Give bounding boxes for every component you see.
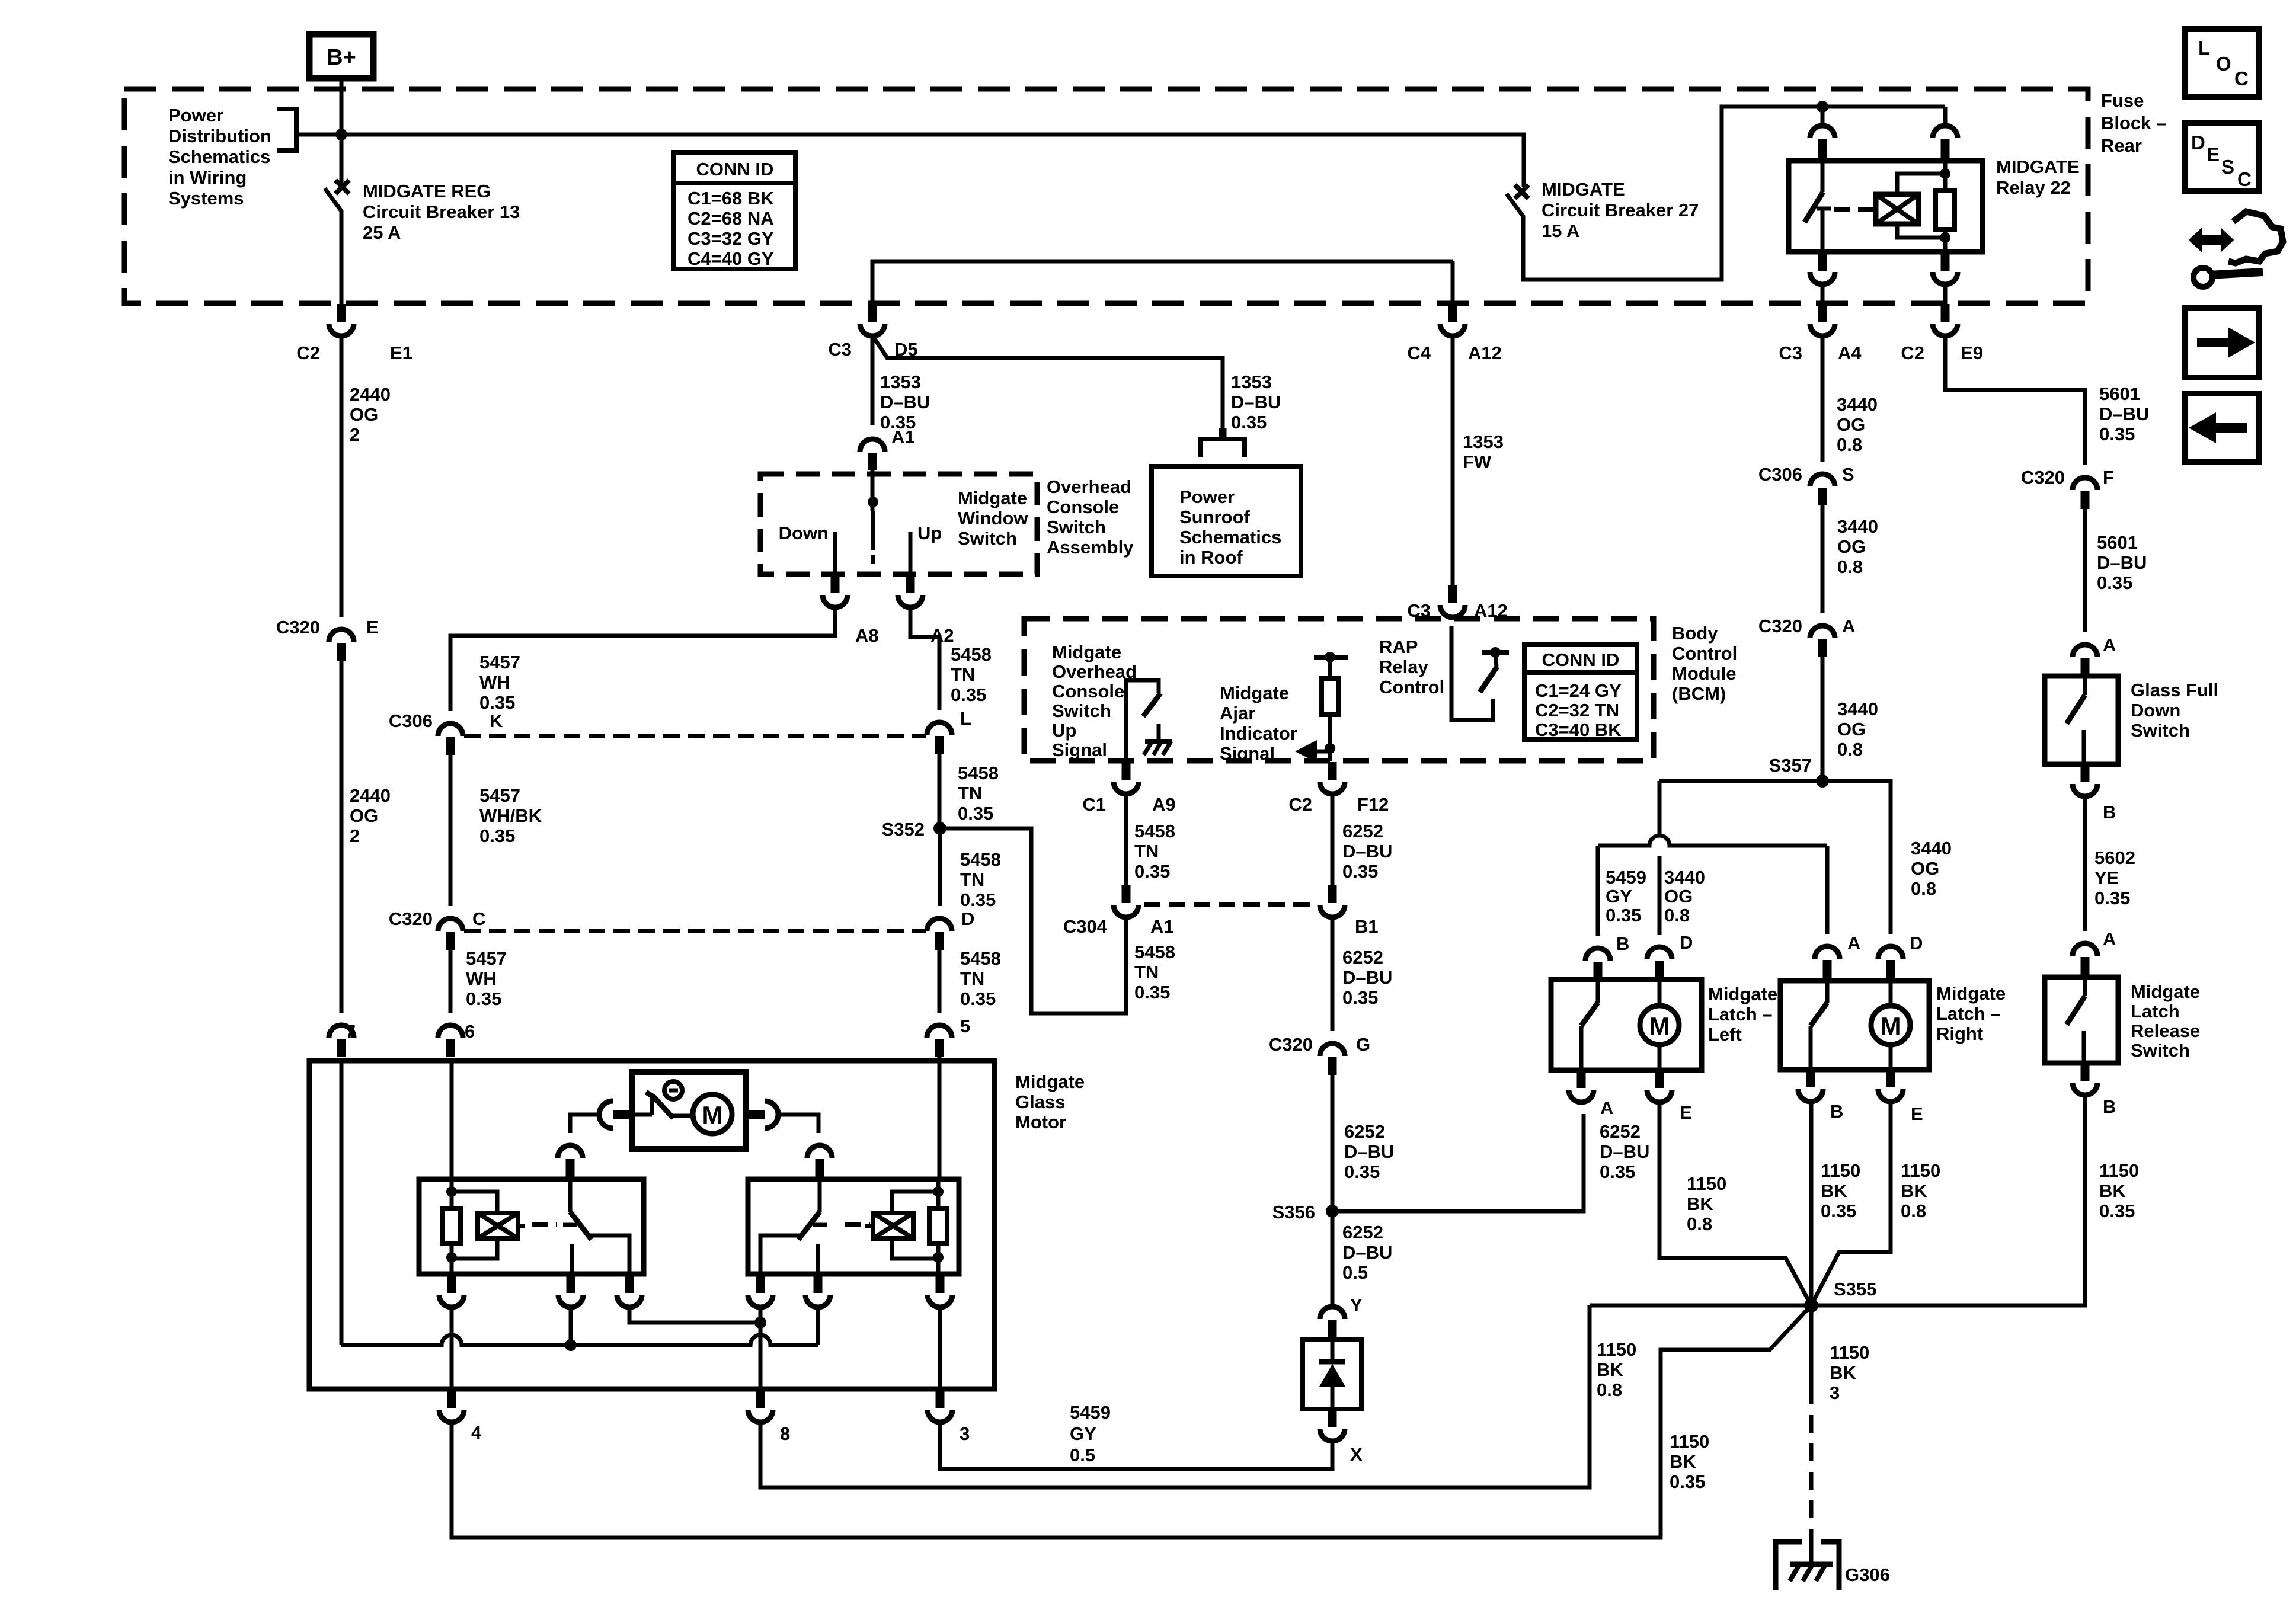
svg-text:Glass Full: Glass Full (2131, 680, 2218, 700)
label 1353 D-BU 0.35 left (880, 372, 930, 433)
relay U22 MIDGATE Relay 22 box (1789, 161, 1982, 252)
svg-text:5458: 5458 (960, 849, 1001, 870)
wire 5458 A9 to C304A1 (1124, 794, 1128, 885)
CONN ID table fuse block (674, 152, 795, 269)
svg-text:OG: OG (1664, 886, 1693, 907)
relay K22 linkage (1834, 207, 1873, 212)
svg-text:A1: A1 (1150, 916, 1174, 937)
connector pin4 (439, 1390, 482, 1443)
svg-text:E: E (2207, 143, 2220, 165)
CONN ID table BCM (1524, 645, 1637, 740)
wire 5458 S352 to D (938, 828, 942, 906)
svg-text:0.35: 0.35 (2099, 1201, 2135, 1221)
svg-text:E9: E9 (1961, 343, 1983, 363)
svg-text:2: 2 (350, 825, 360, 846)
relay K22 lower pin 87 (1933, 253, 1958, 304)
svg-text:C: C (2237, 168, 2252, 190)
svg-text:FW: FW (1463, 452, 1492, 472)
connector pin7 (329, 1021, 356, 1057)
svg-text:C3=40 BK: C3=40 BK (1535, 719, 1622, 740)
svg-text:in Wiring: in Wiring (168, 167, 247, 188)
svg-text:L: L (2198, 37, 2210, 59)
svg-text:in Roof: in Roof (1179, 547, 1243, 568)
svg-text:WH: WH (479, 672, 510, 693)
connector latch right E (1878, 1070, 1923, 1124)
connector Y (1320, 1295, 1363, 1338)
svg-text:E1: E1 (390, 343, 412, 363)
connector L (927, 708, 971, 754)
bracket to power distribution note (277, 109, 296, 151)
BCM ajar indicator arrow (1295, 740, 1330, 763)
svg-text:Midgate: Midgate (2131, 981, 2200, 1002)
svg-text:0.35: 0.35 (1606, 905, 1641, 926)
connector C306 K (389, 710, 503, 755)
svg-text:5457: 5457 (466, 948, 507, 969)
svg-text:0.35: 0.35 (1821, 1201, 1856, 1221)
svg-text:1150: 1150 (1901, 1160, 1940, 1181)
svg-text:BK: BK (1597, 1359, 1623, 1380)
svg-text:E: E (1680, 1102, 1692, 1123)
wire coil legs (452, 1305, 940, 1389)
wire 1353 C3D5 down (871, 336, 875, 425)
svg-text:0.5: 0.5 (1342, 1262, 1368, 1283)
svg-text:6252: 6252 (1342, 1222, 1383, 1243)
svg-text:2: 2 (350, 424, 360, 445)
svg-text:C3: C3 (1779, 343, 1802, 363)
label 5457 WH 0.35 (479, 652, 520, 713)
connector relay bottom left coil (439, 1275, 464, 1307)
label 5601 D-BU 0.35 b (2097, 532, 2147, 593)
dashed wire C to D (464, 929, 926, 933)
svg-text:5602: 5602 (2094, 847, 2135, 868)
svg-text:Module: Module (1672, 663, 1737, 684)
svg-text:Overhead: Overhead (1047, 476, 1131, 497)
label 5458 TN 0.35 below A1 (1134, 942, 1175, 1003)
svg-text:5458: 5458 (960, 948, 1001, 969)
wire 6252 B1 to C320G (1331, 917, 1335, 1031)
label Power Distribution Schematics in Wiring Systems (168, 105, 271, 209)
label 6252 D-BU 0.5 (1342, 1222, 1392, 1283)
splice S352 (882, 819, 946, 840)
svg-text:Midgate: Midgate (1220, 683, 1289, 703)
svg-text:1353: 1353 (1231, 372, 1272, 392)
icon arrow right box (2185, 308, 2259, 377)
svg-text:Switch: Switch (2131, 1040, 2190, 1061)
circuit breaker CB13 MIDGATE REG (325, 180, 349, 304)
svg-text:L: L (960, 708, 971, 729)
svg-text:C4: C4 (1407, 343, 1431, 363)
connector glass switch B (2073, 764, 2116, 822)
svg-text:S357: S357 (1769, 755, 1812, 776)
svg-text:C2=68 NA: C2=68 NA (687, 208, 774, 229)
midgate latch left box (1551, 980, 1702, 1070)
svg-text:Up: Up (917, 523, 942, 543)
svg-text:D–BU: D–BU (1600, 1141, 1649, 1162)
svg-text:BK: BK (1901, 1180, 1927, 1201)
svg-text:Indicator: Indicator (1220, 723, 1297, 744)
left relay linkage (532, 1222, 557, 1227)
svg-text:O: O (2216, 53, 2231, 75)
svg-text:5458: 5458 (951, 644, 992, 665)
wire 1150 pin8 to S355 (760, 1305, 1590, 1487)
svg-text:5458: 5458 (1134, 942, 1175, 962)
wire 3440 A down (1821, 657, 1825, 781)
svg-text:Ajar: Ajar (1220, 703, 1255, 724)
svg-text:0.8: 0.8 (1837, 434, 1862, 455)
fuse block - rear dashed box (124, 89, 2088, 303)
svg-text:S: S (1842, 464, 1854, 485)
connector C320 C (389, 908, 486, 950)
label Power Sunroof Schematics in Roof (1179, 486, 1281, 568)
svg-text:1353: 1353 (880, 372, 921, 392)
svg-text:Switch: Switch (2131, 720, 2190, 741)
svg-text:B: B (2103, 802, 2116, 822)
svg-text:E: E (366, 617, 379, 638)
svg-text:A: A (1847, 933, 1860, 953)
svg-text:0.35: 0.35 (960, 988, 996, 1009)
label 6252 D-BU 0.35 latch (1600, 1121, 1649, 1182)
svg-text:WH/BK: WH/BK (479, 805, 542, 826)
midgate latch release switch box (2045, 977, 2118, 1063)
left relay coil assembly (443, 1061, 497, 1274)
svg-text:6252: 6252 (1600, 1121, 1641, 1142)
label 3440 OG 0.8 a (1837, 394, 1878, 455)
svg-text:Latch: Latch (2131, 1001, 2180, 1022)
svg-text:6252: 6252 (1344, 1121, 1385, 1142)
splice S356 (1272, 1202, 1339, 1222)
svg-text:Body: Body (1672, 623, 1718, 644)
midgate window switch dashed box (760, 474, 1037, 574)
svg-text:B: B (1830, 1101, 1843, 1122)
connector C320 E (276, 617, 379, 661)
svg-text:C320: C320 (2021, 467, 2065, 488)
relay K22 upper pin connector 30 (1933, 107, 1958, 159)
svg-text:6252: 6252 (1342, 947, 1383, 968)
svg-text:C2: C2 (1901, 343, 1924, 363)
motor left terminal (599, 1101, 632, 1128)
svg-text:Schematics: Schematics (168, 146, 270, 167)
label 5458 TN 0.35 S352 (960, 849, 1001, 910)
svg-text:3440: 3440 (1837, 516, 1878, 537)
svg-text:3: 3 (960, 1423, 970, 1444)
connector C304 A1 (1063, 885, 1174, 937)
connector relay bottom right common (748, 1275, 773, 1307)
svg-text:D–BU: D–BU (2099, 404, 2149, 424)
label 5458 TN 0.35 below D (960, 948, 1001, 1009)
label MIDGATE REG Circuit Breaker 13 25 A (363, 181, 520, 243)
wire 5458 D to pin5 (938, 950, 942, 1013)
wire 5601 E9 (1945, 336, 2085, 465)
connector pin6 (438, 1021, 475, 1057)
label 1353 D-BU 0.35 right (1231, 372, 1281, 433)
svg-text:0.35: 0.35 (1342, 861, 1378, 882)
svg-text:K: K (490, 710, 503, 731)
svg-text:X: X (1350, 1444, 1363, 1465)
label RAP Relay Control (1379, 636, 1444, 697)
svg-text:D–BU: D–BU (2097, 552, 2147, 573)
svg-text:Block –: Block – (2101, 113, 2166, 133)
svg-text:Switch: Switch (1052, 700, 1111, 721)
svg-text:Fuse: Fuse (2101, 90, 2144, 111)
label 5458 TN 0.35 A2 (951, 644, 992, 705)
label 2440 OG 2 second (350, 785, 391, 846)
release switch blade (2067, 977, 2085, 1063)
svg-text:GY: GY (1606, 886, 1632, 907)
svg-text:M: M (1881, 1012, 1901, 1040)
wire 6252 S356 to Y (1331, 1211, 1335, 1307)
svg-text:TN: TN (960, 869, 984, 890)
connector latch left D (1647, 932, 1693, 980)
svg-text:0.35: 0.35 (1134, 861, 1170, 882)
connector glass switch A (2073, 635, 2116, 676)
svg-text:5: 5 (960, 1016, 970, 1036)
label Midgate Glass Motor (1015, 1071, 1085, 1132)
svg-text:1353: 1353 (1463, 431, 1504, 452)
right relay switch (760, 1159, 827, 1274)
label MIDGATE Relay 22 (1996, 156, 2080, 198)
svg-text:A8: A8 (855, 625, 879, 646)
svg-text:0.35: 0.35 (960, 889, 996, 910)
wire 1150 latch right E to S355 (1811, 1102, 1891, 1305)
connector C3 D5 (828, 304, 917, 360)
svg-text:C306: C306 (1758, 464, 1802, 485)
BCM midgate ajar indicator resistor (1314, 652, 1348, 761)
connector A8 (823, 575, 879, 646)
circuit breaker CB27 MIDGATE (1507, 101, 1945, 280)
dashed wire to G306 (1809, 1387, 1814, 1541)
splice S355 (1804, 1279, 1876, 1313)
svg-text:1150: 1150 (1687, 1173, 1726, 1194)
svg-text:A4: A4 (1838, 343, 1862, 363)
wire 1150 latch left E (1659, 1102, 1811, 1305)
svg-text:D–BU: D–BU (1231, 392, 1281, 412)
svg-text:Schematics: Schematics (1179, 527, 1281, 548)
wire 3440 S down (1821, 505, 1825, 613)
svg-text:Latch –: Latch – (1708, 1004, 1773, 1025)
svg-text:S356: S356 (1272, 1202, 1315, 1222)
svg-text:Midgate: Midgate (1936, 983, 2006, 1004)
window switch pole (868, 470, 878, 564)
svg-text:Rear: Rear (2101, 135, 2142, 156)
wire B+ bus (296, 90, 1524, 187)
svg-text:Power: Power (1179, 486, 1235, 507)
connector latch left E (1647, 1070, 1692, 1123)
connector relay bottom right coil (928, 1275, 952, 1307)
wire 5601 F down (2083, 509, 2087, 632)
connector motor relay right (807, 1145, 832, 1177)
svg-text:3440: 3440 (1911, 838, 1952, 859)
svg-text:C320: C320 (389, 908, 433, 929)
svg-text:C: C (2234, 68, 2249, 89)
svg-text:OG: OG (350, 404, 378, 425)
midgate latch right box (1780, 981, 1929, 1070)
svg-text:BK: BK (2099, 1180, 2126, 1201)
svg-text:0.35: 0.35 (479, 692, 515, 713)
wire S357 to latch right D (1822, 781, 1891, 934)
svg-text:S355: S355 (1834, 1279, 1876, 1299)
label 6252 D-BU 0.35 G (1344, 1121, 1394, 1182)
svg-text:0.8: 0.8 (1597, 1379, 1622, 1400)
label Midgate Window Switch (958, 488, 1028, 549)
svg-text:A1: A1 (891, 427, 915, 447)
svg-text:0.35: 0.35 (479, 825, 515, 846)
connector C4 A12 (1407, 304, 1502, 363)
svg-text:OG: OG (1837, 719, 1866, 740)
wire S355 east to release switch (1811, 1095, 2085, 1305)
svg-text:Relay: Relay (1379, 657, 1428, 677)
connector latch right D (1878, 933, 1923, 981)
connector relay bottom left throw (558, 1275, 583, 1307)
connector C1 A9 (1082, 762, 1175, 815)
svg-text:A12: A12 (1468, 343, 1502, 363)
connector latch left A (1569, 1070, 1613, 1118)
svg-text:Control: Control (1379, 677, 1444, 697)
svg-text:Power: Power (168, 105, 223, 126)
svg-text:5458: 5458 (958, 763, 999, 783)
svg-text:C1: C1 (1082, 794, 1106, 815)
svg-text:C: C (472, 908, 485, 929)
svg-text:1150: 1150 (1670, 1431, 1709, 1452)
svg-text:8: 8 (780, 1423, 790, 1444)
svg-text:CONN ID: CONN ID (1542, 649, 1620, 670)
svg-text:MIDGATE: MIDGATE (1542, 179, 1625, 200)
wire C4 A12 drop (1451, 261, 1455, 304)
connector C320 A (1758, 616, 1856, 657)
svg-text:0.35: 0.35 (1600, 1161, 1635, 1182)
svg-text:C306: C306 (389, 710, 433, 731)
svg-text:Relay 22: Relay 22 (1996, 177, 2071, 198)
svg-text:0.35: 0.35 (958, 803, 993, 824)
svg-text:D–BU: D–BU (1344, 1141, 1394, 1162)
label 5458 TN 0.35 below L (958, 763, 999, 824)
splice S357 (1769, 755, 1829, 788)
svg-text:3440: 3440 (1837, 394, 1878, 415)
latch left motor M (1640, 980, 1679, 1070)
svg-text:5458: 5458 (1134, 821, 1175, 841)
svg-text:5459: 5459 (1606, 867, 1646, 888)
svg-text:2440: 2440 (350, 785, 391, 806)
svg-text:7: 7 (346, 1021, 356, 1042)
svg-text:(BCM): (BCM) (1672, 683, 1726, 704)
label 5459 GY 0.35 (1606, 867, 1646, 926)
label 3440 OG 0.8 latch right (1911, 838, 1952, 899)
connector C320 F (2021, 467, 2114, 509)
label 1150 BK 0.8 latch left (1687, 1173, 1726, 1234)
svg-text:B: B (2103, 1096, 2116, 1117)
svg-text:Switch: Switch (958, 528, 1017, 549)
svg-text:0.35: 0.35 (1342, 987, 1378, 1008)
svg-text:C320: C320 (1269, 1034, 1313, 1055)
label 1150 BK 0.8 pin8 (1597, 1339, 1636, 1400)
label Fuse Block - Rear (2101, 90, 2166, 156)
label 1150 BK 0.35 release (2099, 1160, 2139, 1221)
svg-text:A9: A9 (1152, 794, 1176, 815)
svg-text:D: D (2191, 132, 2205, 153)
svg-text:C3=32 GY: C3=32 GY (687, 228, 774, 249)
wire 1150 pin4 to S355 (452, 1305, 1811, 1538)
svg-text:4: 4 (471, 1422, 482, 1443)
svg-text:15 A: 15 A (1542, 220, 1579, 241)
svg-text:G: G (1356, 1034, 1370, 1055)
wire 6252 F12 to B1 (1331, 794, 1335, 885)
svg-text:D–BU: D–BU (1342, 841, 1392, 862)
svg-text:C3: C3 (828, 339, 852, 360)
motor inner box (632, 1072, 746, 1149)
label 1150 BK 3 (1830, 1342, 1869, 1403)
svg-text:3: 3 (1830, 1382, 1840, 1403)
svg-text:D: D (961, 908, 974, 929)
svg-text:Control: Control (1672, 643, 1737, 664)
connector A2 (898, 575, 954, 646)
label 5458 TN 0.35 A9 (1134, 821, 1175, 882)
wire 5457 WH to pin6 (449, 950, 453, 1013)
svg-text:C2: C2 (1288, 794, 1312, 815)
svg-text:5457: 5457 (479, 652, 520, 673)
connector C3 A12 BCM (1407, 585, 1508, 621)
label 5459 GY 0.5 (1070, 1402, 1111, 1465)
wire 5459 X to pin3 (940, 1420, 1332, 1469)
midgate glass motor box (309, 1061, 994, 1389)
svg-text:A: A (2103, 635, 2116, 655)
left relay coil box (478, 1213, 525, 1238)
wire A switch commons (629, 1305, 766, 1389)
diode D1 box (1303, 1339, 1361, 1409)
wire 5457 WH A8 (450, 607, 835, 711)
svg-text:Midgate: Midgate (1708, 984, 1777, 1004)
battery feed B+ symbol (309, 34, 373, 90)
svg-text:D–BU: D–BU (880, 392, 930, 412)
label Midgate Latch Release Switch (2131, 981, 2200, 1061)
label 5457 WH/BK 0.35 (479, 785, 542, 846)
svg-text:OG: OG (1837, 536, 1866, 557)
svg-text:Signal: Signal (1220, 743, 1275, 764)
connector C2 E1 (296, 304, 412, 363)
BCM console up signal switch (1126, 680, 1160, 761)
svg-text:B: B (1616, 933, 1629, 954)
svg-text:A12: A12 (1474, 600, 1508, 621)
svg-text:0.8: 0.8 (1687, 1214, 1712, 1234)
window switch Down contact (779, 523, 835, 575)
dashed wire K to L (464, 734, 926, 738)
svg-text:M: M (702, 1101, 723, 1129)
svg-text:5601: 5601 (2097, 532, 2138, 553)
right relay coil assembly (892, 1057, 947, 1274)
svg-text:YE: YE (2094, 868, 2119, 888)
svg-text:Signal: Signal (1052, 740, 1107, 760)
wire 5602 YE (2083, 796, 2087, 931)
svg-text:F: F (2103, 467, 2114, 488)
label A1 pin (891, 427, 915, 447)
relay K22 switch contact (1805, 161, 1831, 252)
right relay coil box (865, 1213, 913, 1238)
label 6252 D-BU 0.35 B1 (1342, 947, 1392, 1008)
icon DESC box (2185, 123, 2259, 191)
icon LOC box (2185, 29, 2259, 97)
svg-text:5601: 5601 (2099, 383, 2140, 404)
motor M1 glass motor (693, 1094, 732, 1134)
glass full down switch box (2045, 676, 2118, 764)
diode D1 (1319, 1339, 1345, 1409)
svg-text:Midgate: Midgate (958, 488, 1027, 508)
svg-text:OG: OG (1837, 414, 1865, 435)
label 5601 D-BU 0.35 a (2099, 383, 2149, 444)
svg-text:Down: Down (2131, 700, 2180, 721)
connector C320 G (1269, 1034, 1370, 1075)
svg-text:OG: OG (350, 805, 378, 826)
svg-text:0.35: 0.35 (951, 684, 986, 705)
label 3440 OG 0.8 c (1837, 699, 1878, 760)
svg-text:F12: F12 (1357, 794, 1389, 815)
